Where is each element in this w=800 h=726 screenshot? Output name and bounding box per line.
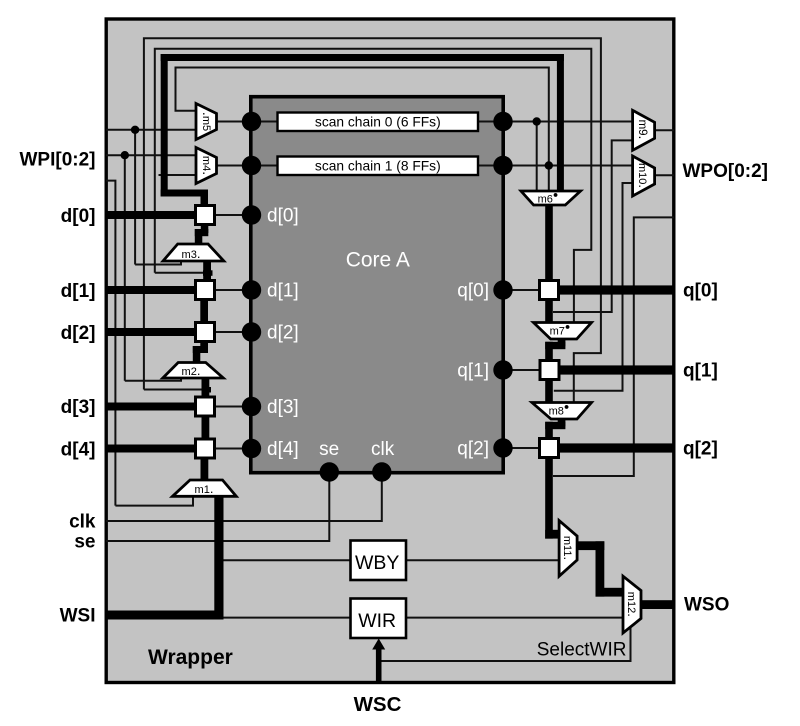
- mux m1: [173, 480, 237, 496]
- wire thick d2 functional input: [106, 328, 196, 336]
- WBY box: [351, 541, 407, 581]
- node scan0 output dot: [493, 112, 512, 131]
- svg-text:SelectWIR: SelectWIR: [537, 640, 627, 661]
- svg-text:Wrapper: Wrapper: [148, 646, 233, 669]
- wire WPI bit0 to m3 bottom: [135, 260, 181, 265]
- wire WBY input: [219, 559, 351, 561]
- mux m5: [196, 104, 217, 140]
- node se port dot: [320, 462, 339, 481]
- svg-text:d[1]: d[1]: [267, 281, 299, 302]
- wire m10 lower input tap: [554, 183, 633, 391]
- wire d2 cell to core dot: [214, 331, 252, 333]
- wire thick d1 functional input: [106, 286, 196, 294]
- wire scan chain 1 input stub: [217, 165, 278, 167]
- wire thick WSI top bypass right vertical into m6: [557, 54, 564, 192]
- wire WPI bit1 horizontal to m4: [106, 154, 197, 156]
- wrapper cell q1: [540, 361, 559, 380]
- wrapper cell q0: [540, 281, 559, 300]
- wire thick q0 functional output: [558, 285, 674, 294]
- svg-text:q[2]: q[2]: [457, 439, 489, 460]
- svg-text:q[0]: q[0]: [683, 281, 718, 302]
- wrapper cell d0: [196, 206, 215, 225]
- junction nub m2 select: [202, 387, 212, 393]
- wire thick m6 output to q0 cell: [545, 204, 553, 281]
- wire WPI bit2 stub from border: [106, 181, 115, 506]
- svg-text:d[0]: d[0]: [267, 206, 299, 227]
- wire WPI bit1 to m2 bottom: [125, 377, 181, 381]
- junction scan1 line: [545, 161, 553, 169]
- wire tap to m4 lower input: [159, 174, 197, 176]
- node d4 port dot: [242, 439, 261, 458]
- svg-text:m12.: m12.: [625, 592, 640, 617]
- wire thick WSI top bypass horizontal: [161, 54, 564, 61]
- node d3 port dot: [242, 397, 261, 416]
- svg-text:scan chain 0 (6 FFs): scan chain 0 (6 FFs): [315, 115, 441, 130]
- svg-text:se: se: [319, 439, 339, 460]
- svg-text:d[4]: d[4]: [267, 439, 299, 460]
- wire thick m1 output down: [214, 496, 223, 620]
- svg-text:m10.: m10.: [636, 163, 651, 188]
- wire thick m11 output to m12: [577, 541, 604, 550]
- wire thick m7 output jog to q1 cell: [558, 338, 566, 346]
- svg-text:WSI: WSI: [60, 606, 96, 627]
- wrapper box: [106, 19, 674, 683]
- junction scan0 line: [533, 117, 541, 125]
- mux m2: [163, 363, 224, 379]
- mux m10: [633, 156, 655, 196]
- svg-text:d[2]: d[2]: [267, 323, 299, 344]
- wire se: [106, 472, 329, 541]
- wire thick WSC with arrowhead: [376, 647, 382, 684]
- wire WBY output to m11: [406, 559, 559, 561]
- svg-text:q[1]: q[1]: [457, 361, 489, 382]
- junction WPI bit0: [131, 126, 139, 134]
- node scan1 output dot: [493, 156, 512, 175]
- wire m9 output to WPO: [655, 129, 674, 131]
- wire d1 cell to core dot: [214, 289, 252, 291]
- svg-text:q[1]: q[1]: [683, 361, 718, 382]
- svg-text:d[3]: d[3]: [267, 397, 299, 418]
- wrapper cell q2: [540, 439, 559, 458]
- svg-text:Core A: Core A: [346, 249, 410, 272]
- wire thick WSI top bypass left vertical: [161, 54, 168, 197]
- svg-text:WSC: WSC: [354, 693, 402, 716]
- wrapper cell d4: [196, 439, 215, 458]
- wire thick WSI horizontal: [106, 611, 224, 620]
- wire WIR input: [219, 617, 351, 619]
- svg-text:WSO: WSO: [684, 595, 729, 616]
- svg-text:m2.: m2.: [182, 363, 201, 378]
- core A box: [251, 97, 503, 473]
- wire m9 lower input tap: [553, 140, 633, 312]
- wrapper cell d2: [196, 323, 215, 342]
- wrapper cell d3: [196, 397, 215, 416]
- wire q2 dot to cell: [503, 447, 540, 449]
- wire thick spine d0 cell to m3: [201, 223, 209, 233]
- wire q1 dot to cell: [503, 369, 540, 371]
- wire d3 cell to core dot: [214, 406, 252, 408]
- wire scan0 dot to m6: [536, 122, 538, 191]
- mux m11: [559, 521, 577, 577]
- junction WPI bit1: [121, 151, 129, 159]
- wire thick d3 functional input: [106, 403, 196, 411]
- svg-text:d[3]: d[3]: [61, 397, 96, 418]
- svg-text:WPO[0:2]: WPO[0:2]: [683, 161, 769, 182]
- svg-text:scan chain 1 (8 FFs): scan chain 1 (8 FFs): [315, 159, 441, 174]
- svg-text:d[1]: d[1]: [61, 281, 96, 302]
- wrapper cell d1: [196, 281, 215, 300]
- wire scan chain 1 output line to m10: [503, 165, 633, 167]
- scan chain 0 box: [278, 113, 479, 132]
- svg-text:m11.: m11.: [561, 536, 576, 560]
- wire thick spine d4 to m1: [201, 458, 209, 481]
- node d1 port dot: [242, 280, 261, 299]
- wire thick q1 cell to m8: [545, 380, 553, 404]
- svg-text:se: se: [74, 532, 95, 553]
- wire A top span: [144, 38, 601, 402]
- wire d4 cell to core dot: [214, 448, 252, 450]
- svg-text:WBY: WBY: [355, 552, 399, 574]
- wire scan chain 0 right stub: [478, 121, 503, 123]
- wire WPI bit2 to m1 bottom: [115, 496, 193, 506]
- wire thick q2 cell to m11: [545, 458, 553, 539]
- node d0 port dot: [242, 205, 261, 224]
- wire WIR output to m12: [406, 617, 623, 619]
- wire WPI bit0 vertical x=135: [134, 130, 136, 265]
- wire thick spine m3 to d1 cell: [203, 260, 211, 282]
- junction nub m3 select: [203, 270, 213, 276]
- wire q0 dot to cell: [503, 289, 540, 291]
- wire thick spine m2 to d3: [202, 377, 210, 398]
- wire d0 cell to core dot: [214, 214, 252, 216]
- wire scan chain 0 input stub: [217, 121, 278, 123]
- wire clk: [106, 472, 382, 521]
- svg-text:d[0]: d[0]: [61, 206, 96, 227]
- wire B to m3 select at spine: [155, 272, 204, 274]
- mux m8: [532, 403, 592, 420]
- svg-text:q[0]: q[0]: [457, 281, 489, 302]
- mux m4: [196, 148, 217, 184]
- mux m6: [521, 191, 581, 205]
- svg-text:clk: clk: [69, 512, 96, 533]
- wire scan chain 1 right stub: [478, 165, 503, 167]
- svg-text:q[2]: q[2]: [683, 439, 718, 460]
- node d2 port dot: [242, 322, 261, 341]
- node scan1 input dot: [242, 156, 261, 175]
- wire thick spine d1 to d2: [200, 299, 208, 324]
- wire B top span: [155, 49, 592, 322]
- node q0 port dot: [493, 280, 512, 299]
- wire SelectWIR: [382, 626, 631, 661]
- wire thick d4 functional input: [106, 445, 196, 453]
- svg-text:WPI[0:2]: WPI[0:2]: [20, 150, 96, 171]
- wire thick q1 functional output: [559, 365, 674, 374]
- wire thick spine d3 to d4: [202, 416, 210, 440]
- svg-text:m1.: m1.: [195, 481, 214, 496]
- wire m10 output to WPO: [655, 174, 674, 176]
- wire feedback scan1 to m5 upper input: [176, 68, 549, 191]
- wire thick spine d2 to m2: [200, 341, 208, 351]
- wire thick q0 cell to m7: [545, 300, 553, 324]
- wire WPI bit0 horizontal to m5: [106, 129, 197, 131]
- node scan0 input dot: [242, 112, 261, 131]
- svg-text:clk: clk: [371, 439, 395, 460]
- wire scan chain 0 output line to m9: [503, 121, 633, 123]
- wire thick m8 output jog to q2 cell: [558, 418, 566, 426]
- wire WPI bit1 vertical x=124.8: [124, 155, 126, 381]
- wire WPO bit2 tap: [553, 217, 674, 476]
- mux m12: [623, 576, 641, 633]
- svg-text:WIR: WIR: [358, 610, 396, 632]
- wire thick corner into d0 cell: [161, 190, 208, 197]
- wire thick d0 functional input: [106, 211, 196, 219]
- node q2 port dot: [493, 438, 512, 457]
- mux m9: [633, 110, 655, 150]
- mux m3: [163, 244, 224, 261]
- wire thick q2 functional output: [558, 443, 674, 452]
- node clk port dot: [372, 462, 391, 481]
- wire A to m2 select at spine: [144, 389, 203, 391]
- mux m7: [534, 323, 592, 340]
- wire thick m12 output WSO: [641, 600, 675, 609]
- WIR box: [351, 599, 407, 639]
- svg-text:d[2]: d[2]: [61, 323, 96, 344]
- svg-text:d[4]: d[4]: [61, 440, 96, 461]
- scan chain 1 box: [278, 157, 479, 176]
- svg-text:m3.: m3.: [182, 246, 201, 261]
- node q1 port dot: [493, 360, 512, 379]
